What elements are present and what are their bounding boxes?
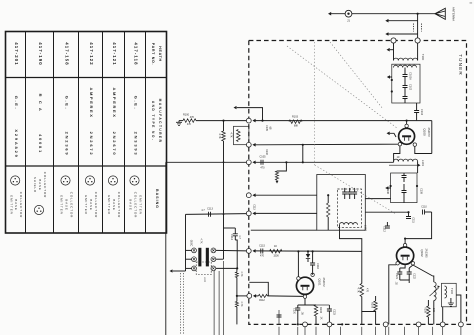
transformer T101 lug bot-right	[211, 266, 216, 271]
plug arrow RF box	[385, 186, 388, 190]
svg-text:C111: C111	[412, 217, 415, 223]
resistor R113 inside can	[327, 203, 330, 217]
svg-text:470: 470	[260, 255, 265, 258]
svg-text:L4.R: L4.R	[203, 277, 206, 282]
Q100 emitter lead	[413, 143, 416, 146]
T100 shield box	[392, 64, 420, 103]
wire R107 bottom	[362, 297, 376, 325]
svg-text:1500: 1500	[273, 255, 279, 258]
transformer T100 secondary coil	[394, 65, 417, 67]
inductor L101	[394, 159, 418, 161]
svg-text:2N2369: 2N2369	[65, 132, 70, 157]
table row lines	[6, 78, 167, 167]
svg-text:AMPEREX: AMPEREX	[89, 88, 94, 119]
svg-text:417-122: 417-122	[89, 42, 94, 65]
table basing diagram col1	[9, 176, 23, 218]
svg-text:417-118: 417-118	[134, 42, 139, 65]
wire T100 primary right leg	[417, 43, 419, 60]
wire shield top	[166, 161, 247, 163]
capacitor C104	[414, 111, 419, 113]
svg-text:40081: 40081	[38, 134, 43, 154]
wire Q101 base drop	[297, 251, 299, 276]
svg-text:SHIELD: SHIELD	[33, 177, 37, 193]
node feed crossing	[223, 213, 225, 215]
wire to corner	[407, 120, 432, 122]
transformer T101 lug mid-left	[192, 257, 197, 262]
wire emitter resistor drop	[404, 282, 406, 284]
svg-text:COLLECTOR: COLLECTOR	[43, 172, 47, 198]
svg-text:ANTENNA: ANTENNA	[452, 7, 456, 21]
svg-text:R108: R108	[371, 302, 374, 309]
wire drop lines	[213, 271, 215, 335]
svg-text:G.E.: G.E.	[65, 96, 70, 110]
plug arrow RF	[252, 161, 255, 165]
svg-text:4.7K: 4.7K	[240, 302, 243, 307]
tuning gang dotted line 1	[287, 46, 397, 128]
transistor Q100	[399, 128, 415, 144]
wire lug links left	[186, 249, 192, 251]
svg-text:417-158: 417-158	[65, 42, 70, 65]
plug arrow IF in	[252, 193, 255, 197]
svg-text:Q101: Q101	[318, 278, 322, 286]
capacitor C121	[397, 272, 402, 274]
terminal socket osc feed	[246, 249, 251, 254]
capacitor C109 right	[416, 185, 418, 187]
svg-text:G.E.: G.E.	[14, 96, 19, 110]
svg-text:4.7K: 4.7K	[357, 287, 360, 292]
Q100 collector lead	[405, 124, 408, 127]
node mixer junction	[407, 211, 409, 213]
wire shield ground	[251, 229, 317, 231]
wire T100 primary left leg	[393, 43, 395, 60]
svg-text:47K: 47K	[190, 116, 195, 119]
inductor L103	[434, 282, 436, 300]
resistor R109	[427, 306, 430, 317]
wire R104 drop	[277, 162, 286, 171]
wire can link	[365, 198, 390, 200]
svg-text:EMITTER: EMITTER	[84, 195, 88, 214]
Q101 emitter lead	[303, 295, 306, 298]
node Q101 base junction	[297, 250, 299, 252]
svg-text:68K: 68K	[294, 125, 299, 128]
table basing diagram col4	[84, 176, 98, 218]
svg-text:BASING: BASING	[155, 189, 159, 209]
capacitor C110 series	[423, 210, 425, 215]
svg-text:EMITTER: EMITTER	[107, 195, 111, 214]
T102 box	[442, 283, 457, 307]
transformer T101 lug bot-left	[192, 266, 197, 271]
RF box	[391, 173, 417, 203]
svg-text:TUNER: TUNER	[458, 54, 463, 76]
svg-text:C105: C105	[265, 125, 268, 131]
svg-text:BASE: BASE	[14, 199, 18, 211]
resistor R101 box	[234, 126, 249, 144]
svg-text:HEATH: HEATH	[158, 46, 162, 62]
wire IF secondary out	[365, 211, 408, 213]
wire Q102 out	[413, 265, 433, 276]
transistor Q101	[296, 277, 313, 294]
capacitor C101 dotted	[414, 24, 422, 32]
T101 dashed slug box	[196, 262, 211, 275]
svg-text:T102: T102	[450, 288, 454, 294]
Q101 base lead	[297, 277, 300, 280]
Q102 emitter lead	[411, 262, 414, 265]
capacitor C113	[209, 212, 211, 217]
transformer T100 primary coil	[394, 58, 418, 60]
dotted lines to converter	[180, 273, 183, 335]
wire Q100 emitter	[415, 146, 432, 153]
transistor Q102	[397, 247, 414, 264]
svg-text:R C A: R C A	[38, 94, 43, 113]
wire out right	[456, 295, 461, 324]
svg-text:C116: C116	[316, 263, 319, 269]
wire L103 bottom	[433, 301, 435, 325]
capacitor C112 hang	[385, 226, 390, 228]
tuner enclosure dashed box	[249, 41, 474, 325]
capacitor C117	[342, 192, 347, 194]
capacitor C119	[352, 192, 357, 194]
table basing diagram col2	[33, 172, 47, 215]
wire Q102 collector	[403, 244, 406, 247]
svg-text:COLLECTOR: COLLECTOR	[117, 192, 121, 218]
capacitor C105	[261, 160, 263, 165]
IF box L102	[337, 189, 361, 227]
terminal socket RF	[246, 160, 251, 165]
svg-text:C113: C113	[253, 204, 256, 210]
wire L102 drop	[340, 225, 362, 252]
svg-text:100: 100	[432, 308, 435, 313]
svg-text:BASE: BASE	[65, 199, 69, 211]
svg-text:BASE: BASE	[129, 199, 133, 211]
antenna symbol	[435, 8, 445, 19]
terminal socket B	[415, 38, 420, 43]
svg-text:R103: R103	[292, 116, 299, 119]
capacitor C102	[404, 77, 406, 86]
svg-text:470: 470	[260, 167, 265, 170]
capacitor C118	[347, 192, 352, 194]
node bias mid	[236, 295, 238, 297]
node RF junction	[285, 161, 287, 163]
svg-text:2N3393: 2N3393	[134, 132, 139, 157]
resistor R107 4.7K	[360, 284, 364, 297]
svg-text:4.7K: 4.7K	[218, 133, 221, 138]
svg-text:PART NO.: PART NO.	[151, 43, 155, 66]
svg-text:BASE: BASE	[112, 199, 116, 211]
svg-text:2N2672: 2N2672	[322, 277, 326, 287]
plug arrow AGC	[252, 119, 255, 123]
scan mark top right	[470, 2, 473, 3]
svg-text:AMPEREX: AMPEREX	[112, 88, 117, 119]
node Q100 collector junction	[406, 120, 408, 122]
wire mixer drop	[405, 212, 432, 239]
capacitor C123	[328, 305, 330, 309]
plug arrow base feed	[252, 143, 255, 147]
wire bias chain	[236, 268, 238, 272]
svg-text:C113: C113	[207, 208, 213, 211]
wire emitter to coil	[394, 146, 400, 162]
svg-text:BASE: BASE	[89, 199, 93, 211]
resistor R111 4.7K	[235, 301, 238, 307]
wire Q102 base drop	[389, 265, 396, 325]
wire IF out	[255, 212, 316, 214]
capacitor C116	[310, 263, 315, 265]
bottom feedthrough sockets	[303, 322, 464, 327]
wire osc top	[186, 213, 247, 216]
transformer T101 core bar left	[198, 248, 201, 267]
capacitor C115	[261, 249, 263, 254]
table heath part numbers	[14, 42, 138, 65]
capacitor C100A	[404, 68, 406, 75]
svg-text:C122: C122	[413, 273, 416, 279]
wire osc out mid	[216, 258, 224, 260]
node AGC junction	[222, 120, 224, 122]
terminal socket AGC	[246, 118, 251, 123]
svg-text:X29A829: X29A829	[14, 129, 19, 158]
ground G1	[176, 122, 182, 125]
wire emitter bus	[298, 304, 316, 306]
wire Q102 emitter net	[400, 280, 409, 283]
wire IF base line	[255, 250, 361, 253]
wire bias link	[237, 108, 263, 121]
wire R101 drop	[223, 121, 225, 131]
antenna jack J1	[345, 10, 352, 22]
wire antenna lead	[331, 13, 435, 15]
svg-text:EMITTER: EMITTER	[60, 195, 64, 214]
svg-text:C102: C102	[409, 84, 412, 91]
terminal socket base feed	[246, 142, 251, 147]
resistor R106	[314, 305, 317, 316]
svg-text:R106: R106	[319, 307, 322, 314]
wire antenna drop	[417, 14, 419, 41]
wire Q101 emitter	[304, 298, 306, 305]
plug arrow bias	[234, 106, 237, 109]
tuning gang dotted line 2	[315, 165, 396, 214]
node T100 box left joints	[391, 79, 393, 81]
svg-text:417-201: 417-201	[14, 42, 19, 65]
svg-text:R100: R100	[183, 114, 190, 117]
svg-text:COLLECTOR: COLLECTOR	[19, 192, 23, 218]
terminal socket IF in	[246, 193, 251, 198]
svg-text:AND TYPE NO.: AND TYPE NO.	[151, 101, 155, 141]
terminal socket A	[391, 38, 396, 43]
wire AGC left	[196, 120, 247, 122]
capacitor C107	[402, 191, 407, 193]
table basing diagram col6	[129, 176, 143, 218]
wire osc left leg	[185, 214, 187, 268]
transformer T101 core bar right	[206, 248, 209, 267]
wire stub lower	[389, 33, 418, 35]
Q100 base lead	[398, 143, 401, 146]
plug arrow osc feed	[252, 249, 255, 253]
L101 tuning arrow	[389, 164, 418, 166]
Q101 collector lead	[311, 273, 314, 276]
inductor L104	[445, 286, 447, 298]
wires to lower board	[279, 327, 461, 335]
wire R107 drop	[361, 251, 363, 283]
Q102 base lead	[396, 262, 399, 265]
svg-text:47K: 47K	[187, 123, 192, 126]
table basing diagram col3	[60, 176, 74, 218]
wire T102 tap	[442, 307, 444, 325]
svg-text:C112: C112	[383, 226, 386, 232]
svg-text:C100A: C100A	[409, 72, 412, 80]
table outer border	[6, 32, 167, 234]
plug arrow T100 left	[387, 75, 390, 79]
resistor R103	[289, 120, 302, 124]
wire osc out bottom	[216, 267, 237, 269]
wire stub upper	[389, 20, 418, 22]
resistor R101 4.7K	[237, 130, 241, 142]
wire bottom left stub	[278, 310, 280, 324]
node bias joint	[261, 120, 263, 122]
capacitor C114	[233, 234, 238, 236]
wire base-RF link	[302, 145, 304, 163]
svg-text:EMITTER: EMITTER	[138, 195, 142, 214]
resistor R112	[256, 295, 259, 297]
svg-text:C109: C109	[420, 188, 423, 194]
ground G2	[448, 303, 454, 306]
diode D100	[307, 250, 309, 252]
capacitor C103	[404, 88, 406, 97]
plug arrow IF out	[252, 212, 255, 216]
svg-text:4.7K: 4.7K	[230, 132, 233, 137]
plug arrow upper stub	[385, 19, 388, 23]
node shield crossing	[223, 161, 225, 163]
svg-text:T100: T100	[421, 54, 425, 61]
wire AGC right	[255, 120, 406, 122]
capacitor C106	[403, 173, 405, 175]
wire IF in path	[255, 194, 316, 196]
terminal socket IF out	[246, 211, 251, 216]
svg-text:L101: L101	[421, 160, 425, 167]
table basing diagram col5	[107, 176, 121, 218]
capacitor C111 hang	[408, 212, 410, 216]
bottom crossing dots	[297, 323, 299, 325]
svg-text:COLLECTOR: COLLECTOR	[69, 192, 73, 218]
svg-text:470: 470	[366, 288, 369, 293]
svg-text:COLLECTOR: COLLECTOR	[94, 192, 98, 218]
svg-text:2N1395: 2N1395	[425, 248, 429, 258]
svg-text:4.7K: 4.7K	[240, 272, 243, 277]
svg-text:C121: C121	[395, 273, 398, 279]
plug arrow lower stub	[385, 32, 388, 36]
svg-text:C120: C120	[293, 308, 296, 315]
L103 tuning arrow	[430, 288, 439, 296]
capacitor C120	[295, 308, 300, 310]
wire T100 bottom to C104	[416, 103, 418, 111]
tuning gang dotted line 3	[330, 42, 383, 109]
arrow B minus	[276, 181, 279, 184]
wire L103 top	[433, 276, 434, 282]
svg-text:C123: C123	[333, 309, 336, 315]
wire feed vertical	[223, 141, 225, 259]
table manufacturer and type numbers	[14, 88, 138, 159]
capacitor C108 left	[390, 185, 392, 187]
resistor R100 47K	[179, 120, 183, 122]
svg-text:G.E.: G.E.	[134, 96, 139, 110]
svg-text:C105: C105	[260, 156, 267, 159]
svg-text:C114: C114	[230, 234, 233, 240]
svg-text:1K: 1K	[320, 317, 323, 320]
tuning gang dotted vertical	[314, 42, 316, 165]
svg-text:C110: C110	[421, 206, 427, 209]
svg-text:R102: R102	[265, 149, 268, 155]
svg-text:4.7K: 4.7K	[200, 239, 203, 244]
svg-text:J1: J1	[347, 19, 350, 23]
resistor R102 4.7K	[222, 131, 226, 141]
transformer T101 lug top-left	[192, 248, 197, 253]
wire base feed	[255, 143, 400, 146]
svg-text:417-190: 417-190	[38, 42, 43, 65]
svg-text:417-121: 417-121	[112, 42, 117, 65]
plug arrow Q100 base	[387, 132, 390, 136]
svg-text:Q102: Q102	[420, 249, 424, 257]
IF shield can	[317, 175, 366, 231]
transformer T101 lug mid-right	[211, 257, 216, 262]
svg-text:R109: R109	[424, 307, 427, 313]
wire bias to socket	[237, 295, 247, 297]
wire osc out top	[216, 249, 247, 252]
oscillator shield left edge	[165, 162, 167, 335]
wire L101 right leg	[417, 162, 419, 174]
svg-text:OSC: OSC	[190, 240, 194, 247]
resistor R104	[275, 171, 278, 180]
svg-text:Q100: Q100	[423, 128, 427, 136]
svg-text:BASE: BASE	[38, 179, 42, 191]
inductor L102	[340, 223, 358, 225]
svg-text:MANUFACTURER: MANUFACTURER	[158, 99, 162, 144]
plug arrow antenna left	[328, 12, 331, 16]
svg-text:C104: C104	[420, 109, 423, 116]
resistor R110 4.7K	[235, 272, 238, 278]
terminal socket emitter bias	[247, 294, 252, 299]
table column lines	[26, 32, 146, 234]
plug arrow emitter bias	[253, 294, 256, 298]
ground lug osc	[170, 269, 173, 272]
svg-text:R112: R112	[259, 299, 265, 302]
plug arrow T100 primary tap	[387, 48, 390, 52]
svg-text:C115: C115	[259, 245, 265, 248]
resistor R108	[374, 301, 377, 311]
node antenna junction	[417, 13, 419, 15]
svg-text:1K: 1K	[274, 245, 277, 248]
svg-text:EMITTER: EMITTER	[9, 195, 13, 214]
svg-text:L102: L102	[364, 225, 368, 232]
transformer T101 lug top-right	[211, 248, 216, 253]
resistor R105 1K	[270, 249, 283, 253]
node Q102 top	[404, 238, 406, 240]
svg-text:2N2670: 2N2670	[112, 132, 117, 157]
svg-text:2N2670: 2N2670	[427, 127, 431, 137]
svg-text:2N2672: 2N2672	[89, 132, 94, 157]
wire C114 link	[224, 227, 236, 229]
capacitor C122	[407, 272, 412, 274]
wire RF right	[255, 161, 393, 163]
svg-text:COLLECTOR: COLLECTOR	[134, 192, 138, 218]
wire dashed crossing link	[249, 282, 268, 296]
